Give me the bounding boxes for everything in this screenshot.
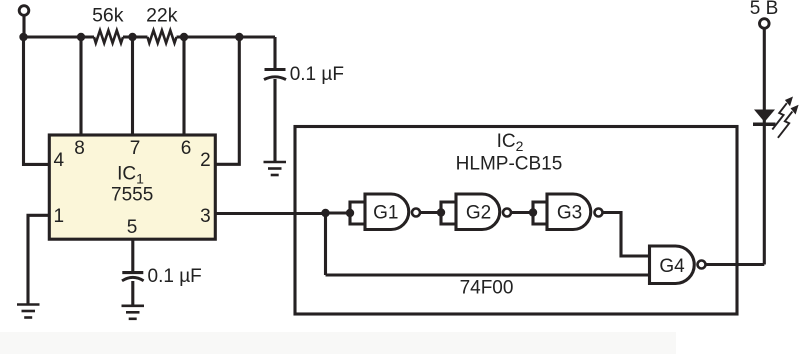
capacitor C1 0.1uF top plate bbox=[265, 68, 286, 71]
gate G2 output bubble bbox=[503, 209, 511, 217]
capacitor C2 bottom curved plate bbox=[122, 277, 144, 280]
LED D1 triangle bbox=[754, 110, 775, 123]
wire top rail segment B bbox=[123, 35, 148, 38]
gate G2 input tie bbox=[441, 202, 456, 224]
svg-text:3: 3 bbox=[200, 206, 211, 227]
wire G4 output to LED bbox=[706, 263, 764, 266]
LED D1 cathode bar bbox=[753, 123, 776, 127]
svg-text:1: 1 bbox=[54, 206, 65, 227]
wire top rail segment A bbox=[24, 35, 95, 38]
wire G1 to G2 bbox=[421, 211, 442, 214]
wire feedback horizontal to G4 bbox=[326, 273, 651, 276]
wire left branch to pin 4 bbox=[24, 37, 51, 164]
wire node A to G1 input bbox=[326, 211, 351, 214]
gate G3 input tie bbox=[533, 202, 548, 224]
scan artifact grey band bottom bbox=[0, 332, 676, 354]
ground under C2 bbox=[122, 306, 145, 319]
junction dot G3 input bbox=[529, 208, 537, 216]
svg-text:74F00: 74F00 bbox=[460, 278, 514, 299]
junction dot pin2 branch bbox=[235, 33, 243, 41]
svg-text:G4: G4 bbox=[659, 256, 685, 277]
gate G1 input tie bbox=[350, 202, 365, 224]
nand gate G2 body bbox=[456, 194, 500, 230]
svg-text:56k: 56k bbox=[92, 4, 124, 26]
gate G4 output bubble bbox=[698, 261, 706, 269]
wire C1 to ground bbox=[273, 79, 276, 161]
wire G2 to G3 bbox=[512, 211, 534, 214]
ground under C1 bbox=[264, 162, 287, 175]
terminal (supply) top-left bbox=[19, 6, 29, 16]
nand gate G1 body bbox=[365, 194, 409, 230]
svg-text:7555: 7555 bbox=[111, 185, 153, 206]
svg-text:G1: G1 bbox=[373, 203, 398, 224]
nand gate G4 body bbox=[650, 246, 695, 284]
svg-text:5 В: 5 В bbox=[750, 0, 779, 19]
wire to capacitor C1 bbox=[273, 37, 276, 69]
wire pin 1 to ground bbox=[28, 215, 50, 303]
capacitor C1 bottom curved plate bbox=[264, 77, 286, 80]
wire C2 to ground bbox=[131, 281, 134, 305]
junction dot G1 input bbox=[346, 209, 354, 217]
LED emission arrow 1 bbox=[772, 97, 793, 130]
resistor R2 22k bbox=[148, 30, 177, 43]
capacitor C2 0.1uF top plate bbox=[122, 271, 143, 274]
svg-text:8: 8 bbox=[74, 138, 85, 159]
node A junction pin3/feedback bbox=[321, 209, 329, 217]
svg-text:22k: 22k bbox=[146, 4, 178, 26]
terminal 5V bbox=[760, 19, 770, 29]
svg-text:7: 7 bbox=[130, 138, 141, 159]
wire pin 2 bbox=[215, 37, 239, 164]
ground under pin 1 bbox=[17, 305, 40, 318]
wire 5V to LED anode bbox=[763, 29, 766, 265]
nand gate G3 body bbox=[547, 194, 591, 230]
svg-text:4: 4 bbox=[54, 150, 65, 171]
IC2 box bbox=[295, 127, 737, 315]
wire G3 to G4 top input bbox=[603, 213, 650, 257]
junction dot rail-left bbox=[19, 33, 27, 41]
wire terminal to rail bbox=[22, 16, 25, 37]
gate G1 output bubble bbox=[412, 209, 420, 217]
junction dot pin7 bbox=[128, 33, 136, 41]
wire pin 3 to gate input node bbox=[215, 212, 326, 215]
IC1 7555 body bbox=[49, 135, 215, 239]
wire pin 7 bbox=[131, 37, 134, 136]
LED emission arrow 2 bbox=[778, 105, 799, 138]
resistor R1 56k bbox=[94, 30, 123, 43]
svg-text:2: 2 bbox=[200, 150, 211, 171]
svg-text:0.1 µF: 0.1 µF bbox=[290, 64, 344, 85]
wire pin 5 to capacitor C2 bbox=[131, 239, 134, 272]
svg-text:G3: G3 bbox=[557, 203, 582, 224]
wire pin 8 bbox=[79, 37, 82, 136]
junction dot pin6 bbox=[180, 33, 188, 41]
wire pin 6 bbox=[182, 37, 185, 136]
junction dot pin8 bbox=[77, 33, 85, 41]
svg-text:5: 5 bbox=[127, 217, 138, 238]
svg-text:0.1 µF: 0.1 µF bbox=[148, 266, 202, 287]
wire top rail segment C bbox=[177, 35, 276, 38]
junction dot G2 input bbox=[437, 208, 445, 216]
gate G3 output bubble bbox=[595, 209, 603, 217]
svg-text:G2: G2 bbox=[466, 203, 491, 224]
svg-text:6: 6 bbox=[181, 138, 192, 159]
svg-text:HLMP-CB15: HLMP-CB15 bbox=[456, 154, 563, 175]
wire feedback vertical bbox=[324, 213, 327, 275]
